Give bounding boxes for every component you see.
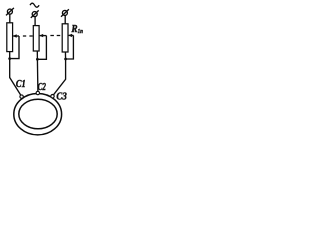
dashed gang link between R2 and R3 wipers [50, 35, 60, 37]
junction dot at R2 bottom [36, 58, 39, 61]
wiper arrow of R2 [39, 34, 46, 37]
wire: T1 to R1 top [9, 14, 11, 23]
motor terminal C1 (small circle) [20, 95, 23, 98]
wiper arrow of R3 [68, 34, 73, 37]
wire: R1 bottom lead [9, 52, 11, 59]
resistor R3 (starting rheostat, phase 3, labelled R1n) [62, 24, 68, 52]
motor terminal C2 (small circle) [36, 91, 39, 94]
junction dot at R1 bottom [8, 57, 11, 60]
tilde (AC supply symbol) [30, 3, 39, 7]
junction dot at R3 bottom [64, 58, 67, 61]
wire: T2 to R2 top [34, 17, 36, 26]
motor rotor (inner circle) [19, 99, 57, 129]
svg-text:C3: C3 [56, 91, 66, 102]
label R1n (rheostat designator) [71, 23, 84, 35]
wire: R2 bottom lead [36, 51, 38, 59]
terminal T1 (supply clamp, phase 1) [6, 8, 14, 15]
resistor R2 (starting rheostat, phase 2) [33, 26, 39, 51]
motor terminal C3 (small circle) [51, 95, 54, 98]
terminal T2 (supply clamp, phase 2) [31, 10, 39, 18]
terminal T3 (supply clamp, phase 3) [61, 9, 69, 17]
svg-text:R: R [71, 23, 78, 35]
wire: R1 wiper drop to bottom lead [10, 36, 19, 59]
svg-text:C2: C2 [38, 82, 47, 93]
wire: phase 2 down to motor terminal C2 [36, 59, 39, 91]
svg-text:1n: 1n [78, 28, 84, 35]
svg-text:C1: C1 [16, 79, 26, 90]
wire: R3 wiper drop to bottom lead [66, 35, 74, 59]
wire: T3 to R3 top [64, 15, 66, 24]
wire: R2 wiper drop to bottom lead [37, 36, 46, 60]
wire: phase 1 down to motor terminal C1 [10, 59, 22, 96]
dashed gang link between R1 and R2 wipers [23, 35, 33, 37]
wire: phase 3 down to motor terminal C3 [53, 59, 66, 96]
motor stator (outer circle) [14, 94, 62, 135]
wiper arrow of R1 [13, 34, 19, 37]
resistor R1 (starting rheostat, phase 1) [7, 23, 13, 52]
wire: R3 bottom lead [64, 52, 66, 59]
